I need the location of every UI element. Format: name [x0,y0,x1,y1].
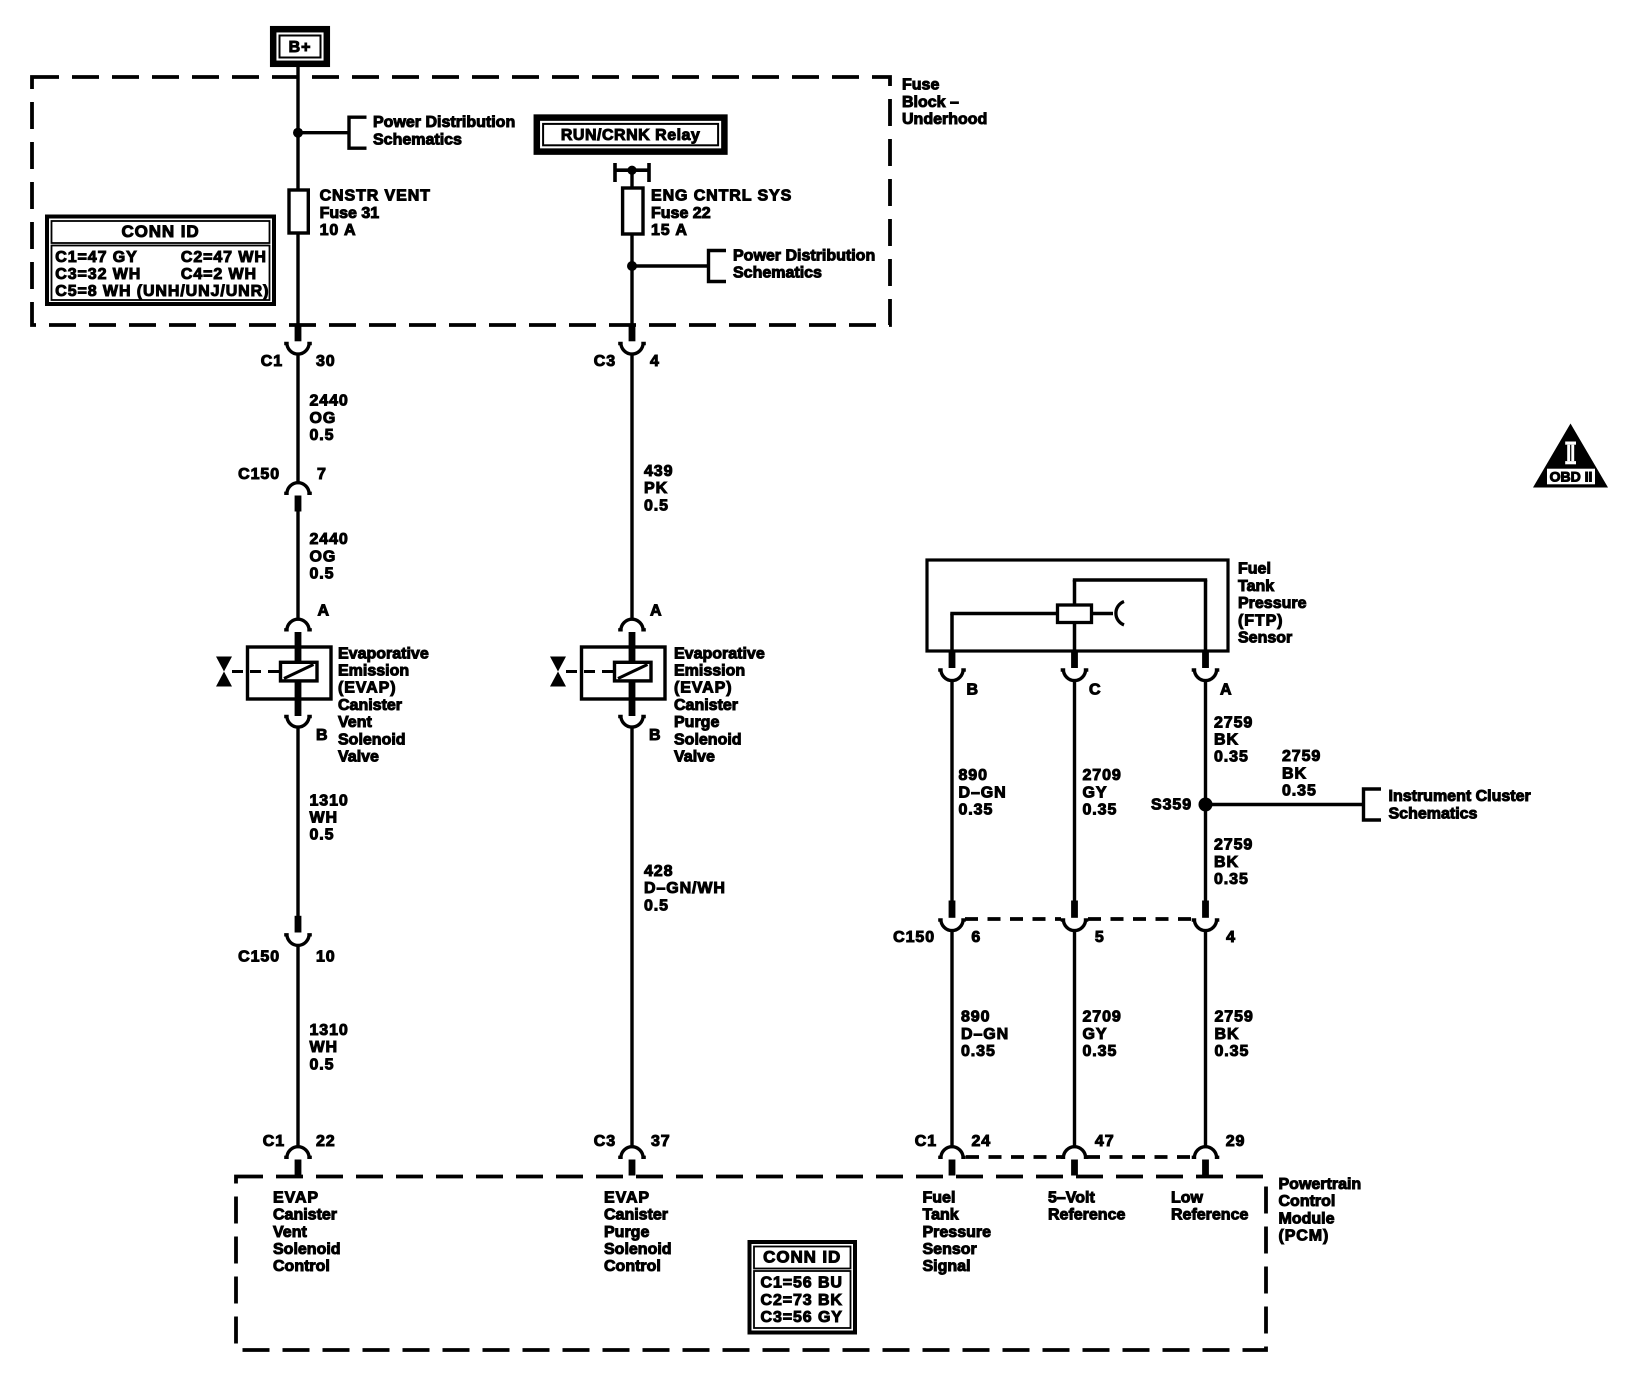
off-page bracket instrument cluster [1364,789,1382,820]
svg-text:24: 24 [972,1133,992,1150]
svg-text:C1: C1 [915,1133,937,1150]
FTP internal top link [1073,578,1207,582]
connector C150 pin 5 [1071,901,1078,918]
svg-text:C1=56 BU: C1=56 BU [761,1275,843,1292]
svg-text:7: 7 [317,466,327,483]
svg-text:10: 10 [316,949,336,966]
wire 2709 GY upper [1073,680,1076,901]
svg-text:EVAPCanisterVentSolenoidContro: EVAPCanisterVentSolenoidControl [273,1189,341,1275]
wire 1310 WH upper segment [296,726,299,917]
svg-text:LowReference: LowReference [1171,1189,1248,1223]
svg-text:890D–GN0.35: 890D–GN0.35 [959,767,1007,818]
svg-text:2759BK0.35: 2759BK0.35 [1214,837,1253,888]
off-page bracket power distribution (left) [349,117,367,148]
svg-text:C3=56 GY: C3=56 GY [761,1309,843,1326]
FTP sensor pin B connector [949,651,956,668]
svg-text:C1: C1 [261,353,283,370]
svg-text:2440OG0.5: 2440OG0.5 [310,531,349,582]
svg-text:439PK0.5: 439PK0.5 [644,463,673,514]
FTP sensor pin C connector [1071,651,1078,668]
svg-text:C3=32 WH: C3=32 WH [55,266,141,283]
connector C150 pin 7 [284,483,312,495]
svg-text:2709GY0.35: 2709GY0.35 [1083,767,1122,818]
svg-text:5: 5 [1095,929,1105,946]
OBD II triangle symbol [1533,424,1608,488]
fuse F31 CNSTR VENT 10A [289,190,308,233]
svg-text:4: 4 [650,353,660,370]
junction dot power distribution tap (fuse 22) [627,261,637,271]
svg-text:EvaporativeEmission(EVAP)Canis: EvaporativeEmission(EVAP)CanisterVentSol… [338,645,429,765]
wire 2759 BK lower [1204,929,1207,1148]
svg-text:C2=47 WH: C2=47 WH [181,249,267,266]
relay output terminal bracket [615,163,649,182]
connector pin A vent valve [284,619,312,631]
wire S359 to instrument cluster [1206,803,1364,806]
fuse F22 ENG CNTRL SYS 15A [623,188,643,234]
wire 428 D-GN/WH [630,726,633,1148]
dashed harness link C150 row right span [1088,917,1192,921]
svg-text:C1: C1 [263,1133,285,1150]
svg-text:Power DistributionSchematics: Power DistributionSchematics [733,248,875,282]
svg-text:EvaporativeEmission(EVAP)Canis: EvaporativeEmission(EVAP)CanisterPurgeSo… [674,645,765,765]
svg-text:CONN ID: CONN ID [121,222,199,241]
wire 890 D-GN lower [950,929,953,1148]
FTP internal wire pin C upper [1073,580,1077,605]
junction dot power distribution tap [293,128,303,138]
connector pin A purge valve [618,619,646,631]
connector C1 pin 24 (PCM) [938,1147,966,1159]
svg-text:B: B [316,727,328,744]
svg-text:Instrument ClusterSchematics: Instrument ClusterSchematics [1389,788,1531,822]
svg-text:C: C [1089,682,1101,699]
svg-text:1310WH0.5: 1310WH0.5 [310,792,349,843]
connector C3 pin 4 [629,324,636,342]
wire 2440 OG lower segment [296,510,299,620]
svg-text:47: 47 [1095,1133,1115,1150]
wire 890 D-GN upper [950,680,953,901]
svg-text:Power DistributionSchematics: Power DistributionSchematics [373,114,515,148]
svg-text:C150: C150 [893,929,935,946]
wire 1310 WH lower segment [296,944,299,1148]
svg-text:5–VoltReference: 5–VoltReference [1048,1189,1125,1223]
FTP internal wiper arc [1116,602,1124,625]
svg-text:CONN ID: CONN ID [763,1247,841,1266]
wire 2709 GY lower [1073,929,1076,1148]
RUN/CRNK relay box [537,118,725,152]
FTP internal wire pin A [1204,580,1208,651]
CONN ID table fuse block underhood [47,217,274,305]
FTP sensor pin A connector [1202,651,1209,668]
junction dot relay terminal [627,166,636,175]
svg-text:B: B [967,682,979,699]
wire 2440 OG upper segment [296,353,299,484]
wire B+ feed down to connector C1 [296,66,299,327]
fuel tank pressure FTP sensor box [927,560,1228,651]
svg-text:2759BK0.35: 2759BK0.35 [1215,1009,1254,1060]
svg-text:ENG CNTRL SYSFuse 2215 A: ENG CNTRL SYSFuse 2215 A [651,188,792,239]
svg-text:2440OG0.5: 2440OG0.5 [310,393,349,444]
FTP internal wire resistor to wiper [1092,612,1114,616]
svg-text:A: A [650,603,662,620]
svg-text:FuelTankPressureSensorSignal: FuelTankPressureSensorSignal [923,1189,992,1275]
connector C1 pin 47 (PCM) [1061,1147,1089,1159]
CONN ID table PCM [750,1242,856,1333]
connector pin B vent valve [295,699,302,716]
FTP internal wire pin B [950,614,954,652]
wire 2759 BK upper [1204,680,1207,901]
EVAP canister vent solenoid valve [248,647,332,699]
dashed harness link C150 row left span [965,917,1061,921]
wire to power distribution reference (right) [632,264,709,267]
splice S359 [1199,798,1213,812]
off-page bracket power distribution (right) [709,251,727,282]
svg-text:2759BK0.35: 2759BK0.35 [1214,714,1253,765]
svg-text:PowertrainControlModule(PCM): PowertrainControlModule(PCM) [1279,1176,1362,1245]
svg-text:C4=2 WH: C4=2 WH [181,266,257,283]
svg-text:B+: B+ [289,39,312,56]
wire relay through fuse 22 down to connector C3 [630,170,633,327]
svg-text:2759BK0.35: 2759BK0.35 [1282,748,1321,799]
FTP internal resistor [1058,605,1092,623]
svg-text:C3: C3 [594,353,616,370]
svg-text:C150: C150 [238,466,280,483]
svg-text:FuelTankPressure(FTP)Sensor: FuelTankPressure(FTP)Sensor [1238,561,1307,647]
svg-text:29: 29 [1226,1133,1246,1150]
svg-text:6: 6 [971,929,981,946]
wire 439 PK [630,353,633,620]
powertrain control module PCM dashed box [236,1177,1266,1351]
svg-text:37: 37 [651,1133,671,1150]
dashed harness link PCM row right span [1087,1155,1193,1159]
svg-text:22: 22 [316,1133,336,1150]
svg-text:C3: C3 [594,1133,616,1150]
battery feed B+ box [273,29,327,64]
svg-text:S359: S359 [1151,797,1192,814]
svg-text:EVAPCanisterPurgeSolenoidContr: EVAPCanisterPurgeSolenoidControl [604,1189,672,1275]
connector C1 pin 30 [295,324,302,342]
wire to power distribution reference [298,131,349,134]
svg-text:428D–GN/WH0.5: 428D–GN/WH0.5 [644,863,726,914]
svg-text:30: 30 [316,353,336,370]
EVAP canister purge solenoid valve [582,647,666,699]
FTP internal wire to resistor [950,612,1057,616]
connector C150 pin 6 [949,901,956,918]
connector C3 pin 37 (PCM) [618,1147,646,1159]
connector C150 pin 10 [295,916,302,933]
svg-text:RUN/CRNK Relay: RUN/CRNK Relay [561,127,700,144]
svg-text:C150: C150 [238,949,280,966]
svg-text:OBD II: OBD II [1550,469,1593,485]
connector pin B purge valve [629,699,636,716]
svg-text:890D–GN0.35: 890D–GN0.35 [961,1009,1009,1060]
dashed harness link PCM row left span [966,1155,1062,1159]
fuse block underhood dashed box [32,77,890,325]
svg-text:A: A [318,603,330,620]
connector C1 pin 22 (PCM) [284,1147,312,1159]
svg-text:B: B [649,727,661,744]
FTP internal wire pin C lower [1073,623,1077,652]
connector C150 pin 4 [1202,901,1209,918]
svg-text:1310WH0.5: 1310WH0.5 [310,1022,349,1073]
connector C1 pin 29 (PCM) [1192,1147,1220,1159]
svg-text:A: A [1220,682,1232,699]
svg-text:C1=47 GY: C1=47 GY [55,249,137,266]
svg-text:C5=8 WH (UNH/UNJ/UNR): C5=8 WH (UNH/UNJ/UNR) [55,283,269,300]
svg-text:CNSTR VENTFuse 3110 A: CNSTR VENTFuse 3110 A [320,188,431,239]
svg-text:4: 4 [1226,929,1236,946]
svg-text:C2=73 BK: C2=73 BK [761,1292,843,1309]
svg-text:2709GY0.35: 2709GY0.35 [1083,1009,1122,1060]
svg-text:FuseBlock –Underhood: FuseBlock –Underhood [902,77,987,128]
